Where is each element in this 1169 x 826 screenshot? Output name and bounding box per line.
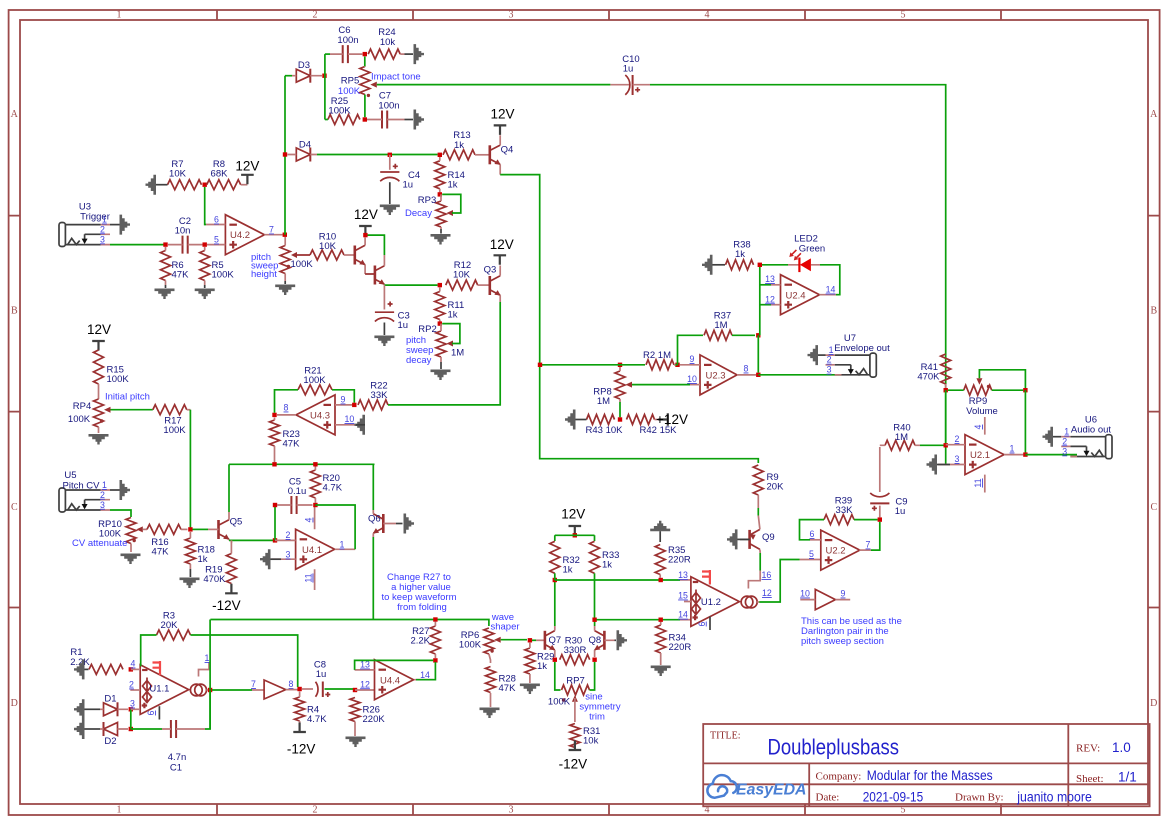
svg-text:B: B bbox=[11, 306, 18, 317]
svg-text:2: 2 bbox=[100, 224, 105, 234]
svg-text:47K: 47K bbox=[152, 547, 170, 558]
svg-text:from folding: from folding bbox=[397, 602, 447, 613]
wire R2 right to R37 bbox=[676, 335, 704, 365]
node U4.2 out bbox=[283, 233, 287, 237]
svg-text:1: 1 bbox=[205, 653, 210, 663]
svg-text:3: 3 bbox=[827, 365, 832, 375]
wire pin3 to D2 line bbox=[130, 709, 132, 729]
svg-text:2: 2 bbox=[100, 490, 105, 500]
wire x758 vertical bbox=[758, 267, 760, 373]
svg-text:A: A bbox=[11, 109, 19, 120]
potentiometer RP1 100K pitch-sweep-height bbox=[280, 237, 313, 284]
power -12V R19 bbox=[212, 584, 241, 613]
wire Q5 emitter to U4.1 pin2 bbox=[229, 540, 273, 543]
capacitor C10 bbox=[610, 54, 650, 95]
svg-text:3: 3 bbox=[286, 550, 291, 560]
svg-text:D: D bbox=[1150, 698, 1157, 709]
resistor R41 bbox=[917, 354, 950, 388]
node R22 left bbox=[352, 403, 356, 407]
resistor R7 bbox=[156, 159, 202, 190]
node R23 bottom bbox=[272, 462, 276, 466]
annotation Decay bbox=[405, 208, 432, 219]
wire R21 left loop bbox=[275, 390, 299, 413]
node Q7 base bbox=[528, 638, 532, 642]
wire Q3 emitter down to R22 bbox=[392, 302, 501, 405]
transistor Q8 (mirrored) bbox=[588, 626, 616, 657]
resistor R39 bbox=[806, 496, 878, 525]
svg-text:12V: 12V bbox=[561, 507, 585, 522]
svg-text:12: 12 bbox=[360, 679, 370, 689]
svg-text:33K: 33K bbox=[836, 505, 854, 516]
resistor R22 bbox=[358, 381, 392, 410]
svg-text:14: 14 bbox=[678, 610, 688, 620]
svg-text:U2.4: U2.4 bbox=[785, 290, 805, 301]
svg-text:U1.2: U1.2 bbox=[701, 597, 721, 608]
node R37 right bbox=[756, 333, 760, 337]
resistor R10 bbox=[310, 232, 355, 261]
svg-text:16: 16 bbox=[762, 570, 772, 580]
svg-text:100K: 100K bbox=[303, 375, 326, 386]
svg-text:Sheet:: Sheet: bbox=[1076, 773, 1104, 785]
ground arrow D1 bbox=[74, 699, 85, 719]
svg-text:RP5: RP5 bbox=[341, 76, 359, 87]
svg-text:10k: 10k bbox=[583, 736, 599, 747]
ground RP4 bbox=[89, 434, 109, 445]
svg-text:8: 8 bbox=[284, 403, 289, 413]
resistor R19 bbox=[203, 540, 236, 589]
svg-text:Trigger: Trigger bbox=[80, 212, 110, 223]
wire Q6 emitter to waveshaper bus bbox=[372, 537, 374, 620]
connector U3 jack bbox=[59, 202, 110, 247]
resistor R31 bbox=[570, 724, 601, 750]
wire collector bus y464 bbox=[229, 463, 375, 465]
svg-text:1: 1 bbox=[1064, 427, 1069, 437]
svg-text:Drawn By:: Drawn By: bbox=[955, 792, 1004, 804]
power 12V Q1 bbox=[354, 207, 378, 237]
wire pin13 bus bbox=[555, 573, 691, 580]
resistor R9 bbox=[753, 465, 784, 516]
potentiometer RP6 bbox=[459, 628, 527, 663]
wire R8 junction to U4.2 pin6 bbox=[205, 187, 206, 225]
svg-text:220R: 220R bbox=[669, 642, 692, 653]
svg-text:470K: 470K bbox=[203, 574, 226, 585]
svg-text:1: 1 bbox=[829, 345, 834, 355]
node R14 bottom bbox=[438, 192, 442, 196]
capacitor C7 bbox=[367, 91, 413, 129]
resistor R28 bbox=[486, 667, 517, 708]
svg-text:3: 3 bbox=[509, 10, 514, 21]
ground arrow R43 bbox=[565, 410, 576, 430]
connector U6 jack bbox=[1061, 415, 1112, 459]
wire D4 to R13 bbox=[317, 154, 438, 156]
svg-text:Q4: Q4 bbox=[501, 145, 514, 156]
capacitor C3 bbox=[375, 285, 410, 335]
resistor R3 bbox=[157, 611, 191, 641]
wire Q9 collector to pin16 bbox=[759, 553, 761, 571]
svg-text:A: A bbox=[1150, 109, 1158, 120]
node R25-C7 bbox=[363, 117, 367, 121]
wire pin14 bus bbox=[597, 619, 691, 621]
transistor Q3 bbox=[484, 265, 501, 303]
node R35 bottom bbox=[659, 578, 663, 582]
svg-text:Doubleplusbass: Doubleplusbass bbox=[768, 735, 900, 760]
transistor Q7 bbox=[545, 626, 561, 657]
annotation Darlington note bbox=[801, 616, 902, 647]
svg-text:7: 7 bbox=[251, 679, 256, 689]
svg-text:decay: decay bbox=[406, 355, 432, 366]
wire R17 to Q5 base bbox=[189, 410, 191, 530]
node R27 top bbox=[433, 617, 437, 621]
ground arrow U4.1 pin3 bbox=[260, 549, 281, 569]
svg-text:1u: 1u bbox=[398, 320, 409, 331]
OTA U1.2 bbox=[678, 570, 772, 630]
annotation Change R27 bbox=[382, 572, 457, 613]
svg-text:10: 10 bbox=[345, 414, 355, 424]
svg-text:trim: trim bbox=[589, 712, 605, 723]
svg-text:11: 11 bbox=[304, 573, 314, 582]
wire LED to U2.4 out bbox=[820, 265, 840, 295]
ground arrow R7 bbox=[146, 175, 157, 195]
node R13 left bbox=[438, 153, 442, 157]
resistor R33 bbox=[590, 541, 620, 573]
resistor R8 bbox=[207, 159, 248, 190]
svg-text:9: 9 bbox=[341, 395, 346, 405]
node RP8 top bbox=[618, 363, 622, 367]
resistor R6 bbox=[161, 247, 190, 288]
svg-text:U4.2: U4.2 bbox=[230, 230, 250, 241]
wire D3 node vertical bbox=[324, 54, 326, 119]
EasyEDA logo bbox=[707, 775, 806, 798]
svg-text:D: D bbox=[11, 698, 18, 709]
wire Q7 collector up bbox=[554, 582, 556, 626]
resistor R21 bbox=[298, 366, 332, 395]
diode D3 bbox=[292, 60, 322, 83]
svg-text:RP3: RP3 bbox=[418, 195, 436, 206]
op-amp U4.2 bbox=[206, 215, 283, 255]
ground R28 bbox=[480, 708, 500, 719]
svg-text:1u: 1u bbox=[895, 506, 906, 517]
node R39-C9 bbox=[878, 517, 882, 521]
resistor R4 bbox=[295, 692, 328, 732]
wire U4.4 pin13 loop bbox=[355, 660, 434, 670]
svg-text:U4.3: U4.3 bbox=[310, 411, 330, 422]
resistor R24 bbox=[368, 27, 413, 59]
node D4 tap bbox=[283, 152, 287, 156]
svg-text:100K: 100K bbox=[212, 270, 235, 281]
svg-text:5: 5 bbox=[901, 10, 906, 21]
svg-text:13: 13 bbox=[678, 570, 688, 580]
potentiometer RP9 bbox=[948, 370, 1026, 417]
svg-text:Q8: Q8 bbox=[588, 635, 601, 646]
wire R41 node down bbox=[945, 390, 947, 443]
potentiometer RP2 bbox=[418, 324, 464, 362]
svg-text:3: 3 bbox=[1062, 446, 1067, 456]
svg-text:2: 2 bbox=[286, 530, 291, 540]
wire R33 bottom bbox=[594, 573, 596, 617]
ground arrow U3 pin1 bbox=[110, 215, 130, 235]
capacitor C6 bbox=[330, 25, 362, 63]
svg-text:12: 12 bbox=[762, 588, 772, 598]
power 12V Q3 bbox=[490, 237, 514, 265]
svg-text:C: C bbox=[11, 502, 18, 513]
svg-text:4.7K: 4.7K bbox=[307, 714, 327, 725]
wire Q2 emitter to R12 bbox=[384, 283, 442, 287]
power 12V Q4 bbox=[490, 106, 514, 134]
wire R27 bottom to out bbox=[416, 662, 435, 680]
ground arrow U6 pin1 bbox=[1043, 427, 1062, 447]
annotation Initial pitch bbox=[105, 392, 150, 403]
svg-text:1k: 1k bbox=[454, 140, 464, 151]
svg-text:3: 3 bbox=[100, 234, 105, 244]
ground R29 bbox=[520, 684, 540, 695]
wire 12V to Q2 collector bbox=[368, 235, 385, 255]
ground arrow D2 bbox=[74, 719, 85, 739]
resistor R27 bbox=[410, 622, 440, 659]
svg-text:15: 15 bbox=[678, 591, 688, 601]
node C6-R24 bbox=[363, 52, 367, 56]
svg-text:Pitch CV: Pitch CV bbox=[63, 481, 101, 492]
resistor R17 bbox=[153, 405, 191, 436]
node R38-LED bbox=[758, 263, 762, 267]
resistor R26 bbox=[350, 698, 385, 737]
ground arrow C7 bbox=[414, 110, 425, 130]
svg-text:6: 6 bbox=[697, 621, 707, 626]
node U2.1 pin2 bbox=[944, 443, 948, 447]
svg-text:5: 5 bbox=[809, 549, 814, 559]
node U2.1 out bbox=[1023, 452, 1027, 456]
node R41 bottom bbox=[944, 388, 948, 392]
svg-text:U2.1: U2.1 bbox=[970, 450, 990, 461]
potentiometer RP10 bbox=[98, 518, 147, 553]
wire R3 left bbox=[141, 635, 157, 666]
svg-text:Date:: Date: bbox=[816, 792, 840, 804]
wire pin2 node up to C5 bbox=[274, 505, 276, 540]
wire U2.2 pin6 loop bbox=[800, 520, 811, 540]
wire Q8 collector up bbox=[594, 618, 596, 627]
svg-text:D4: D4 bbox=[299, 140, 311, 151]
resistor R5 bbox=[200, 247, 235, 288]
wire U1.2 out to U2.2 pin5 bbox=[759, 560, 821, 603]
node Q5 base bbox=[188, 527, 192, 531]
op-amp U2.2 bbox=[809, 529, 871, 570]
svg-text:20K: 20K bbox=[767, 482, 785, 493]
power 12V R32R33 bbox=[561, 507, 585, 538]
resistor R14 bbox=[435, 157, 465, 192]
node C2-R5 bbox=[203, 242, 207, 246]
svg-text:6: 6 bbox=[214, 215, 219, 225]
power +12V R42 bbox=[656, 412, 688, 427]
svg-text:10: 10 bbox=[687, 374, 697, 384]
resistor R32 bbox=[550, 541, 580, 575]
svg-text:1M: 1M bbox=[451, 348, 464, 359]
node RP9 right bbox=[1023, 388, 1027, 392]
annotation pitch sweep decay bbox=[406, 335, 433, 366]
node U4.3 out bbox=[272, 413, 276, 417]
svg-text:4: 4 bbox=[131, 659, 136, 669]
capacitor C2 bbox=[168, 216, 203, 254]
svg-text:3: 3 bbox=[509, 805, 514, 816]
node R32 bottom bbox=[553, 578, 557, 582]
buffer U1.1b pins 7-8 bbox=[251, 679, 297, 699]
node D3 out bbox=[322, 74, 326, 78]
svg-text:20K: 20K bbox=[161, 620, 179, 631]
svg-text:4: 4 bbox=[304, 517, 314, 522]
transistor Q6 (mirrored) bbox=[368, 510, 403, 537]
annotation sine symmetry trim bbox=[579, 692, 620, 723]
op-amp U4.3 bbox=[277, 395, 356, 435]
resistor R29 bbox=[525, 643, 555, 683]
svg-text:10: 10 bbox=[800, 589, 810, 599]
resistor R25 bbox=[325, 96, 360, 125]
capacitor C4 bbox=[380, 153, 420, 204]
svg-text:33K: 33K bbox=[371, 390, 389, 401]
wire U2.3 out to U7 bbox=[758, 374, 841, 376]
capacitor C9 bbox=[870, 447, 907, 517]
LED LED2 bbox=[762, 234, 825, 273]
annotation wave shaper bbox=[490, 612, 519, 633]
svg-text:9: 9 bbox=[690, 354, 695, 364]
resistor R40 bbox=[880, 423, 944, 451]
svg-text:4: 4 bbox=[973, 424, 983, 429]
svg-text:3: 3 bbox=[955, 454, 960, 464]
svg-text:R2 1M: R2 1M bbox=[643, 350, 671, 361]
svg-text:1: 1 bbox=[117, 10, 122, 21]
svg-text:1/1: 1/1 bbox=[1118, 770, 1137, 785]
wire U4.1 feedback bbox=[315, 505, 355, 549]
svg-text:47K: 47K bbox=[172, 270, 190, 281]
node R7-R8 bbox=[203, 183, 207, 187]
capacitor C8 bbox=[302, 660, 353, 698]
OTA U1.1 bbox=[129, 653, 210, 720]
svg-text:12V: 12V bbox=[87, 322, 111, 337]
node R43-R42 bbox=[618, 417, 622, 421]
diode D2 bbox=[84, 722, 128, 747]
wire U3 pin3 to C2 bbox=[110, 242, 168, 246]
wire x285 top to D3 bbox=[285, 75, 292, 77]
resistor R15 bbox=[94, 350, 130, 399]
svg-text:10K: 10K bbox=[319, 241, 337, 252]
svg-text:Impact tone: Impact tone bbox=[371, 71, 421, 82]
node R11 bottom bbox=[438, 321, 442, 325]
diode D4 bbox=[288, 140, 318, 162]
node R33-Q8 bbox=[592, 618, 596, 622]
resistor R23 bbox=[270, 418, 301, 463]
svg-text:4: 4 bbox=[705, 10, 710, 21]
svg-text:100K: 100K bbox=[548, 697, 571, 708]
resistor R38 bbox=[713, 240, 754, 270]
svg-text:D1: D1 bbox=[104, 694, 116, 705]
wire 12V rail split bbox=[555, 535, 595, 541]
svg-text:14: 14 bbox=[826, 285, 836, 295]
svg-text:13: 13 bbox=[765, 274, 775, 284]
node U1.1 pin3 bbox=[129, 707, 133, 711]
svg-text:10K: 10K bbox=[453, 270, 471, 281]
ground R18 bbox=[180, 578, 200, 589]
connector U5 jack bbox=[59, 470, 110, 512]
svg-text:2.2K: 2.2K bbox=[410, 636, 430, 647]
svg-text:6: 6 bbox=[810, 529, 815, 539]
svg-text:1k: 1k bbox=[563, 565, 573, 576]
svg-text:2: 2 bbox=[1062, 436, 1067, 446]
ground RP2 bbox=[431, 362, 451, 380]
svg-text:Envelope out: Envelope out bbox=[834, 343, 890, 354]
svg-text:12: 12 bbox=[765, 294, 775, 304]
ground arrow R35 top bbox=[650, 521, 670, 542]
svg-text:5: 5 bbox=[214, 235, 219, 245]
wire U5 pin3 to RP10 bbox=[110, 510, 131, 517]
svg-text:1: 1 bbox=[117, 805, 122, 816]
svg-text:U2.3: U2.3 bbox=[705, 371, 725, 382]
wire R21 right bbox=[332, 390, 354, 403]
svg-text:+12V: +12V bbox=[656, 412, 688, 427]
svg-text:100K: 100K bbox=[291, 259, 314, 270]
wire RP9 to out bbox=[1024, 390, 1026, 453]
svg-text:9: 9 bbox=[841, 589, 846, 599]
svg-text:D3: D3 bbox=[298, 60, 310, 71]
node buffer out bbox=[297, 687, 301, 691]
wire pin10 to RP8 bbox=[632, 384, 690, 386]
wire waveshaper bus bbox=[210, 620, 489, 627]
svg-text:3: 3 bbox=[130, 699, 135, 709]
capacitor C5 bbox=[277, 477, 313, 515]
resistor R11 bbox=[435, 288, 464, 324]
node U2.3 out bbox=[756, 373, 760, 377]
svg-text:12V: 12V bbox=[354, 207, 378, 222]
wire C6 row bbox=[325, 53, 330, 55]
resistor R42 bbox=[627, 415, 678, 437]
svg-text:EasyEDA: EasyEDA bbox=[736, 782, 807, 799]
potentiometer RP3 bbox=[418, 194, 461, 229]
ground R5 bbox=[195, 289, 215, 300]
svg-text:3: 3 bbox=[100, 500, 105, 510]
svg-text:2: 2 bbox=[827, 355, 832, 365]
svg-text:12V: 12V bbox=[490, 237, 514, 252]
svg-text:R43 10K: R43 10K bbox=[586, 425, 624, 436]
svg-text:-12V: -12V bbox=[559, 757, 588, 772]
resistor R34 bbox=[656, 622, 692, 665]
node U2.3 pin9 bbox=[675, 363, 679, 367]
annotation CV attenuate bbox=[72, 538, 127, 549]
svg-text:100K: 100K bbox=[328, 106, 351, 117]
svg-text:0.1u: 0.1u bbox=[288, 486, 307, 497]
power -12V R31 bbox=[559, 741, 588, 772]
title text bbox=[710, 731, 1137, 805]
wire Q4 emitter long bbox=[500, 175, 758, 463]
svg-text:B: B bbox=[1150, 306, 1157, 317]
svg-text:1: 1 bbox=[102, 480, 107, 490]
svg-text:RP7: RP7 bbox=[566, 676, 584, 687]
svg-text:1.0: 1.0 bbox=[1112, 740, 1131, 755]
svg-text:TITLE:: TITLE: bbox=[710, 731, 741, 742]
potentiometer RP8 bbox=[593, 367, 632, 407]
svg-text:2: 2 bbox=[313, 805, 318, 816]
svg-text:1k: 1k bbox=[448, 180, 458, 191]
ground C4 bbox=[380, 205, 400, 216]
node Q8 emitter bbox=[592, 658, 596, 662]
svg-text:10k: 10k bbox=[380, 37, 396, 48]
potentiometer RP5 bbox=[338, 57, 377, 118]
svg-text:1k: 1k bbox=[735, 249, 745, 260]
svg-text:1M: 1M bbox=[895, 432, 908, 443]
wire Q5 collector up bbox=[228, 464, 230, 512]
wire U1.1 out to buffer bbox=[212, 689, 264, 691]
svg-text:68K: 68K bbox=[211, 169, 229, 180]
svg-text:2021-09-15: 2021-09-15 bbox=[863, 790, 924, 805]
ground RP3 bbox=[431, 229, 451, 245]
buffer Darlington example pins 10-9 bbox=[800, 589, 850, 610]
resistor R13 bbox=[443, 130, 490, 160]
ground arrow Q8 base bbox=[617, 630, 628, 650]
